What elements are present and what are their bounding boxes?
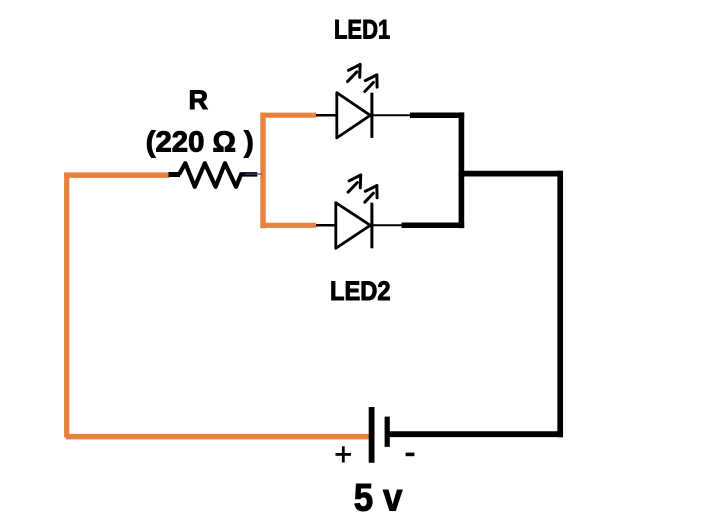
node: LED branch orange vertical — [260, 113, 265, 229]
svg-text:(220 Ω ): (220 Ω ) — [146, 126, 254, 158]
resistor R1 (220 ohm) — [169, 163, 258, 187]
battery BT1 positive plate — [369, 407, 375, 463]
wire: black middle horizontal to right rail — [459, 171, 563, 177]
svg-text:R: R — [189, 85, 209, 115]
battery BT1 negative plate — [385, 417, 390, 447]
LED D2 (LED2) — [146, 15, 563, 520]
wire: orange branch to LED2 anode — [260, 223, 316, 228]
svg-text:5 v: 5 v — [354, 477, 403, 520]
wire: black thick from LED1 cathode to right join — [410, 112, 464, 118]
wire: orange branch to LED1 anode — [260, 113, 316, 118]
svg-text:LED2: LED2 — [330, 276, 391, 306]
wire: black bottom horizontal to battery - — [387, 431, 563, 437]
wire: thin blue lead from resistor to branch node — [246, 173, 262, 175]
node: right short vertical joining LED cathodes — [459, 112, 465, 228]
wire: black thick from LED2 cathode to right join — [402, 223, 465, 229]
wire: orange bottom horizontal to battery + — [66, 434, 370, 440]
label - polarity — [406, 453, 415, 457]
wire: orange top horizontal to resistor R — [64, 172, 169, 178]
wire: orange left vertical rail — [64, 173, 69, 438]
svg-text:LED1: LED1 — [334, 15, 390, 45]
wire: black right vertical rail — [557, 171, 563, 438]
LED D1 (LED1) — [146, 15, 563, 520]
label + polarity — [336, 446, 352, 462]
